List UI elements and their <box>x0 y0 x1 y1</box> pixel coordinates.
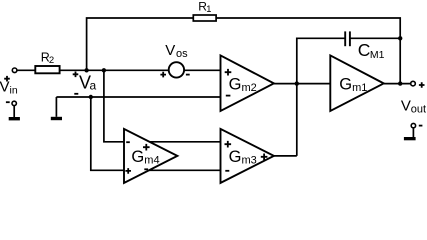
wire Vos to Gm2 plus input <box>184 69 220 71</box>
label Gm3 <box>229 148 257 167</box>
op-amp Gm2 (transconductor) <box>221 55 274 111</box>
resistor R2 <box>35 66 59 73</box>
op-amp Gm3 (transconductor) <box>221 129 274 183</box>
label CM1 <box>358 40 385 61</box>
svg-text:G: G <box>229 148 242 166</box>
svg-text:C: C <box>358 40 371 60</box>
terminal Vout+ <box>411 81 416 86</box>
svg-text:out: out <box>411 103 426 115</box>
wire from gnd node down to Gm4 plus input <box>91 97 124 170</box>
node Va junction dot (to R1 branch) <box>84 68 88 72</box>
svg-text:in: in <box>10 84 18 96</box>
label - (Gm4 minus output) <box>144 168 148 170</box>
ground (Va minus reference) <box>51 97 62 120</box>
svg-text:m4: m4 <box>144 155 159 167</box>
node dot (Gm2 output / CM1 / Gm3 output junction) <box>295 81 299 85</box>
wire Gm1 output to Vout terminal <box>384 83 411 85</box>
node dot (gnd wire branch down to Gm4 plus) <box>89 95 93 99</box>
svg-text:G: G <box>339 75 352 93</box>
svg-text:2: 2 <box>49 55 54 66</box>
label Vin <box>0 79 18 97</box>
label Gm4 <box>131 148 159 167</box>
wire ground to Gm2 minus input <box>56 96 220 98</box>
label + (Gm2 plus input) <box>225 69 232 76</box>
op-amp Gm1 (transconductor) <box>330 55 383 111</box>
label + (Va plus) <box>73 72 79 78</box>
svg-text:V: V <box>165 42 175 59</box>
node dot (CM1 to feedback junction) <box>398 36 402 40</box>
label - (Gm2 minus input) <box>226 95 231 97</box>
svg-text:m2: m2 <box>242 82 257 94</box>
svg-text:V: V <box>401 98 411 115</box>
label + (Gm4 plus output) <box>143 144 150 151</box>
wire Vin+ to R2 <box>17 69 35 71</box>
label - (Vos minus) <box>186 74 190 76</box>
label - (Gm3 minus input) <box>225 170 229 172</box>
wire from Va node down to Gm4 minus input <box>104 70 124 142</box>
wire down from CM1 node to output node <box>399 38 401 83</box>
label - (Va minus) <box>74 93 78 95</box>
label + (Vin plus) <box>4 76 10 82</box>
ground (Vin minus) <box>9 106 20 121</box>
label - (Vout minus) <box>419 125 423 127</box>
label - (Gm4 minus input) <box>126 141 130 143</box>
label R1 <box>198 0 211 14</box>
label + (Vout plus) <box>419 82 425 88</box>
svg-text:1: 1 <box>206 4 211 14</box>
svg-text:m1: m1 <box>352 82 367 94</box>
op-amp Gm4 (transconductor, differential output) <box>124 129 177 183</box>
voltage source Vos <box>169 62 184 77</box>
svg-text:G: G <box>229 75 242 93</box>
label + (Gm4 plus input) <box>125 168 131 174</box>
wire Gm2 output to Gm1 input <box>274 83 330 85</box>
terminal Vin- <box>12 101 16 105</box>
label Gm1 <box>339 75 367 94</box>
label Va <box>79 73 97 93</box>
svg-text:m3: m3 <box>242 155 257 167</box>
wire Gm3 output to vertical junction <box>274 155 297 157</box>
wire top feedback from node Va up and across to output node <box>87 18 401 70</box>
wire Gm4 plus output to Gm3 plus input <box>150 141 221 143</box>
terminal Vout- <box>411 123 415 127</box>
label Vout <box>401 98 426 116</box>
svg-text:G: G <box>131 148 144 166</box>
capacitor CM1 <box>345 31 350 46</box>
label R2 <box>41 50 54 66</box>
resistor R1 <box>193 15 216 21</box>
svg-text:V: V <box>0 79 10 96</box>
terminal Vin+ <box>12 68 17 73</box>
node dot (branch down to Gm4 minus) <box>102 68 106 72</box>
label Vos <box>165 42 188 60</box>
label - (Vin minus) <box>6 101 10 103</box>
label + (Gm3 plus output) <box>261 154 268 161</box>
svg-text:M1: M1 <box>370 49 385 61</box>
label Gm2 <box>229 75 257 94</box>
svg-text:a: a <box>90 79 97 93</box>
wire vertical CM1/Gm3 connection <box>297 38 345 156</box>
ground (Vout minus) <box>404 128 416 141</box>
wire Gm4 minus output to Gm3 minus input <box>149 169 221 171</box>
node dot (output node) <box>398 81 402 85</box>
wire CM1 to output node <box>350 37 400 39</box>
wire R2 to Vos <box>60 69 169 71</box>
label + (Gm3 plus input) <box>225 141 232 148</box>
label + (Vos plus) <box>160 72 166 78</box>
svg-text:os: os <box>176 48 188 60</box>
